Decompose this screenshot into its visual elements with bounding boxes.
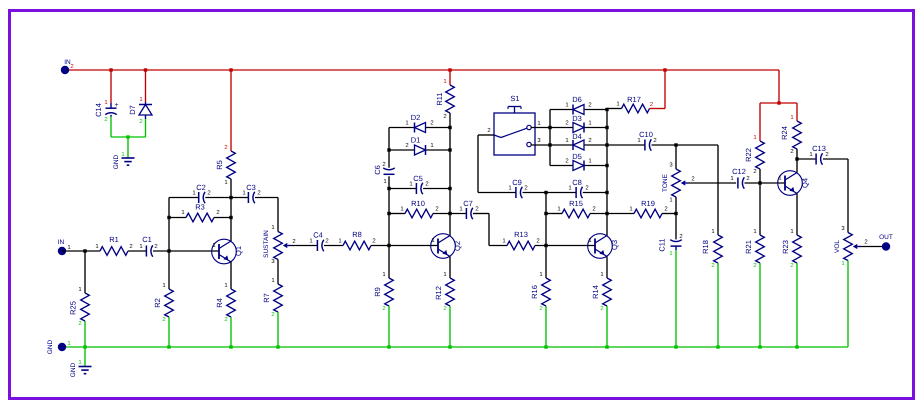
svg-text:C4: C4 xyxy=(313,231,323,240)
svg-text:C9: C9 xyxy=(512,178,522,187)
svg-text:2: 2 xyxy=(565,158,568,165)
wire D1 row xyxy=(389,149,450,151)
svg-text:R3: R3 xyxy=(195,203,205,212)
capacitor C3 xyxy=(231,183,278,203)
ground rail xyxy=(62,345,848,348)
svg-text:2: 2 xyxy=(588,137,591,144)
svg-text:1: 1 xyxy=(753,134,756,141)
svg-text:2: 2 xyxy=(565,120,568,127)
svg-text:GND: GND xyxy=(113,154,120,169)
wire SUSTAIN wiper to C4 xyxy=(291,245,318,247)
resistor R4 xyxy=(215,282,235,323)
svg-text:R25: R25 xyxy=(69,301,78,315)
transistor Q1 xyxy=(212,239,243,264)
svg-text:2: 2 xyxy=(746,175,749,182)
wire C1 to Q1 base xyxy=(153,249,219,252)
wire C7 to R13 xyxy=(489,214,507,246)
wire R18 to ground xyxy=(717,263,719,347)
svg-text:1: 1 xyxy=(383,178,386,185)
svg-text:2: 2 xyxy=(536,238,539,245)
svg-text:2: 2 xyxy=(664,206,667,213)
wire R7 to ground xyxy=(277,312,279,347)
capacitor C10 xyxy=(607,130,657,151)
svg-text:S1: S1 xyxy=(510,94,519,103)
resistor R15 xyxy=(546,199,607,218)
diode D7 xyxy=(128,96,152,125)
svg-text:2: 2 xyxy=(691,176,694,183)
svg-text:2: 2 xyxy=(443,305,446,312)
wire C10 to corner xyxy=(652,143,719,146)
svg-text:2: 2 xyxy=(864,239,867,246)
svg-text:2: 2 xyxy=(650,101,653,108)
svg-text:1: 1 xyxy=(271,224,274,231)
wire R1-C1 xyxy=(128,250,146,252)
resistor R17 xyxy=(616,95,653,113)
svg-text:2: 2 xyxy=(600,305,603,312)
svg-text:2: 2 xyxy=(653,137,656,144)
svg-text:1: 1 xyxy=(557,206,560,213)
resistor R21 xyxy=(744,183,764,269)
resistor R2 xyxy=(153,251,173,323)
capacitor C5 xyxy=(409,174,428,194)
svg-text:Q1: Q1 xyxy=(234,246,243,256)
wire D5 row xyxy=(550,165,607,167)
svg-text:1: 1 xyxy=(753,228,756,235)
svg-text:1: 1 xyxy=(382,271,385,278)
wire Q3 collector column xyxy=(605,108,608,236)
resistor R1 xyxy=(95,235,132,255)
svg-text:2: 2 xyxy=(78,320,81,327)
svg-text:1: 1 xyxy=(565,102,568,109)
wire to ground symbol xyxy=(84,347,86,367)
wire Q1 collector column xyxy=(229,196,232,242)
svg-text:1: 1 xyxy=(409,181,412,188)
svg-text:R16: R16 xyxy=(530,285,539,299)
wire R17 to power xyxy=(650,108,657,110)
resistor R23 xyxy=(781,228,801,269)
capacitor C14 xyxy=(94,99,119,123)
wire TONE top xyxy=(675,145,677,169)
svg-text:1: 1 xyxy=(309,238,312,245)
svg-text:1: 1 xyxy=(568,185,571,192)
resistor R5 xyxy=(215,144,235,198)
svg-text:R9: R9 xyxy=(373,287,382,297)
wire R2 to ground xyxy=(168,317,170,347)
potentiometer SUSTAIN xyxy=(263,224,296,265)
node IN (signal input) xyxy=(58,239,71,255)
svg-text:D5: D5 xyxy=(572,152,582,161)
wire D6 row xyxy=(550,109,607,111)
svg-text:1: 1 xyxy=(790,114,793,121)
wire S1 pin1 to D3 row xyxy=(531,127,550,129)
svg-text:1: 1 xyxy=(443,271,446,278)
svg-text:2: 2 xyxy=(207,190,210,197)
diode D2 xyxy=(405,113,433,133)
resistor R7 xyxy=(262,277,282,318)
svg-text:2: 2 xyxy=(70,63,73,70)
svg-text:SUSTAIN: SUSTAIN xyxy=(263,230,270,258)
svg-text:1: 1 xyxy=(588,120,591,127)
wire C12 to Q4 base xyxy=(745,181,786,184)
svg-text:D4: D4 xyxy=(572,132,582,141)
svg-text:1: 1 xyxy=(588,237,591,244)
wire D3 row xyxy=(550,127,607,129)
diode D5 xyxy=(565,152,591,171)
wire R9 to ground xyxy=(388,306,390,347)
svg-text:1: 1 xyxy=(405,120,408,127)
svg-text:GND: GND xyxy=(47,339,54,354)
wire input row xyxy=(62,249,100,252)
potentiometer VOL xyxy=(834,225,868,267)
svg-text:C3: C3 xyxy=(246,183,256,192)
resistor R18 xyxy=(701,228,722,269)
resistor R13 xyxy=(502,230,539,250)
wire ground join xyxy=(111,135,146,158)
svg-text:2: 2 xyxy=(216,209,219,216)
svg-text:2: 2 xyxy=(790,148,793,155)
svg-text:2: 2 xyxy=(679,233,682,240)
svg-text:VOL: VOL xyxy=(834,240,841,253)
svg-text:1: 1 xyxy=(600,271,603,278)
capacitor C1 xyxy=(139,235,157,257)
svg-text:2: 2 xyxy=(711,262,714,269)
svg-text:1: 1 xyxy=(711,228,714,235)
wire diode left column xyxy=(548,110,551,166)
svg-text:2: 2 xyxy=(825,151,828,158)
resistor R19 xyxy=(607,199,676,218)
svg-text:Q2: Q2 xyxy=(453,241,462,251)
svg-text:3: 3 xyxy=(537,137,541,144)
svg-text:R11: R11 xyxy=(435,92,444,105)
resistor R10 xyxy=(400,199,438,218)
svg-text:1: 1 xyxy=(841,260,844,267)
node GND xyxy=(47,339,71,354)
resistor R12 xyxy=(434,271,454,312)
resistor R9 xyxy=(373,246,393,313)
node OUT xyxy=(879,234,893,251)
svg-text:1: 1 xyxy=(790,228,793,235)
svg-text:2: 2 xyxy=(154,243,157,250)
svg-text:2: 2 xyxy=(592,206,595,213)
ground (rail) xyxy=(70,359,92,377)
svg-text:R22: R22 xyxy=(744,148,753,162)
wire R21 to ground xyxy=(759,263,761,347)
wire power drop to R5 xyxy=(229,68,232,151)
svg-text:1: 1 xyxy=(121,151,124,158)
svg-text:2: 2 xyxy=(162,316,165,323)
svg-text:2: 2 xyxy=(753,262,756,269)
svg-text:1: 1 xyxy=(192,190,195,197)
svg-text:1: 1 xyxy=(95,243,98,250)
svg-text:1: 1 xyxy=(778,175,781,182)
svg-text:2: 2 xyxy=(425,181,428,188)
svg-text:2: 2 xyxy=(224,316,227,323)
svg-text:R14: R14 xyxy=(591,285,600,299)
svg-text:R19: R19 xyxy=(641,199,655,208)
svg-text:R12: R12 xyxy=(434,286,443,300)
svg-text:C7: C7 xyxy=(463,199,473,208)
svg-text:D1: D1 xyxy=(411,136,421,145)
wire Q3 base column xyxy=(544,193,547,246)
svg-text:2: 2 xyxy=(487,127,490,134)
diode D4 xyxy=(565,132,591,150)
svg-text:2: 2 xyxy=(524,185,527,192)
svg-text:1: 1 xyxy=(224,179,227,186)
wire C4-R8 xyxy=(324,245,343,247)
svg-text:2: 2 xyxy=(430,120,433,127)
capacitor C8 xyxy=(546,178,607,198)
svg-text:R4: R4 xyxy=(215,298,224,308)
svg-text:1: 1 xyxy=(212,242,215,249)
wire Q2 collector column xyxy=(448,113,451,236)
svg-text:1: 1 xyxy=(338,238,341,245)
svg-text:1: 1 xyxy=(502,238,505,245)
svg-text:1: 1 xyxy=(431,237,434,244)
svg-text:TONE: TONE xyxy=(662,173,669,192)
resistor R8 xyxy=(338,230,375,250)
wire TONE wiper to C12 xyxy=(689,182,737,184)
wire C3 to SUSTAIN xyxy=(277,198,279,232)
transistor Q2 xyxy=(431,234,462,259)
svg-text:3: 3 xyxy=(841,225,845,232)
svg-text:1: 1 xyxy=(78,286,81,293)
wire D7 to ground xyxy=(145,119,147,137)
svg-text:1: 1 xyxy=(629,206,632,213)
svg-text:1: 1 xyxy=(78,359,81,366)
svg-text:2: 2 xyxy=(443,113,446,120)
svg-text:2: 2 xyxy=(405,142,408,149)
resistor R16 xyxy=(530,246,550,313)
wire power drop to R22/R24 xyxy=(760,70,797,141)
svg-text:R5: R5 xyxy=(215,160,224,170)
svg-text:2: 2 xyxy=(435,206,438,213)
svg-text:2: 2 xyxy=(325,238,328,245)
wire S1 common xyxy=(478,135,516,193)
svg-text:1: 1 xyxy=(616,101,619,108)
wire C7 row xyxy=(450,213,489,215)
svg-text:R17: R17 xyxy=(627,95,641,104)
svg-text:C1: C1 xyxy=(142,235,152,244)
wire R8 to Q2 base xyxy=(371,244,438,247)
svg-text:R24: R24 xyxy=(780,126,789,140)
svg-text:2: 2 xyxy=(753,168,756,175)
svg-text:D2: D2 xyxy=(411,113,421,122)
svg-text:1: 1 xyxy=(637,137,640,144)
resistor R22 xyxy=(744,134,764,183)
wire Q4 collector xyxy=(795,157,798,172)
wire D4 row xyxy=(550,144,607,146)
svg-text:OUT: OUT xyxy=(879,234,893,241)
svg-text:1: 1 xyxy=(565,137,568,144)
svg-text:C2: C2 xyxy=(196,183,206,192)
wire C10 node to R18 xyxy=(717,145,719,235)
svg-text:1: 1 xyxy=(443,78,446,85)
svg-text:R13: R13 xyxy=(514,230,528,239)
svg-text:1: 1 xyxy=(67,340,70,347)
svg-text:R8: R8 xyxy=(352,230,362,239)
wire C13 to VOL xyxy=(823,159,848,233)
wire R13 to Q3 base xyxy=(535,244,595,247)
wire R10 row xyxy=(389,213,450,215)
svg-text:R10: R10 xyxy=(411,199,425,208)
wire R16 to ground xyxy=(545,306,547,347)
wire Q3 emitter xyxy=(606,257,608,279)
svg-text:C10: C10 xyxy=(639,130,653,139)
svg-text:1: 1 xyxy=(271,277,274,284)
wire C6 up to diodes xyxy=(387,128,390,168)
resistor R11 xyxy=(435,78,454,120)
svg-text:R7: R7 xyxy=(262,293,271,303)
svg-text:C12: C12 xyxy=(732,167,746,176)
svg-text:R1: R1 xyxy=(109,235,119,244)
svg-text:1: 1 xyxy=(539,271,542,278)
svg-text:2: 2 xyxy=(257,190,260,197)
svg-text:D6: D6 xyxy=(572,95,582,104)
wire TONE bottom xyxy=(674,197,677,215)
svg-text:R2: R2 xyxy=(153,298,162,308)
svg-text:1: 1 xyxy=(242,190,245,197)
wire D6 row to R17 xyxy=(607,108,622,110)
wire power drop to R17 xyxy=(656,68,667,108)
svg-text:2: 2 xyxy=(139,118,142,125)
diode D6 xyxy=(565,95,591,115)
wire VOL to ground xyxy=(847,261,849,348)
svg-text:1: 1 xyxy=(730,175,733,182)
wire S1 pin3 to D4 row xyxy=(531,144,550,146)
svg-text:C14: C14 xyxy=(94,103,103,117)
svg-text:1: 1 xyxy=(139,243,142,250)
svg-text:IN: IN xyxy=(58,239,65,246)
svg-text:Q4: Q4 xyxy=(801,178,810,188)
resistor R14 xyxy=(591,271,611,312)
svg-text:R23: R23 xyxy=(781,240,790,254)
wire power drop to D7 xyxy=(144,68,147,102)
diode D3 xyxy=(565,114,591,133)
capacitor C9 xyxy=(508,178,527,198)
capacitor C11 xyxy=(658,214,683,258)
svg-text:2: 2 xyxy=(382,161,385,168)
svg-text:1: 1 xyxy=(162,282,165,289)
wire R4 to ground xyxy=(230,317,232,347)
svg-text:2: 2 xyxy=(292,238,295,245)
node IN (power input) xyxy=(61,59,74,74)
wire Q1 emitter xyxy=(230,262,232,290)
wire Q4 emitter xyxy=(796,194,798,236)
svg-text:2: 2 xyxy=(382,305,385,312)
svg-text:1: 1 xyxy=(139,96,142,103)
svg-text:1: 1 xyxy=(508,185,511,192)
svg-text:3: 3 xyxy=(669,162,673,169)
wire D2 row xyxy=(389,127,450,129)
wire Q2 emitter xyxy=(449,257,451,279)
wire C11 to ground xyxy=(675,250,677,347)
wire R12 to ground xyxy=(449,306,451,347)
svg-text:+: + xyxy=(114,102,118,109)
svg-text:2: 2 xyxy=(372,238,375,245)
resistor R3 xyxy=(169,203,231,222)
svg-text:C13: C13 xyxy=(812,144,826,153)
svg-text:1: 1 xyxy=(809,151,812,158)
svg-text:1: 1 xyxy=(669,197,672,204)
transistor Q3 xyxy=(588,234,619,259)
svg-text:1: 1 xyxy=(224,282,227,289)
wire R25 to ground xyxy=(84,321,86,347)
svg-text:2: 2 xyxy=(271,311,274,318)
wire Q2 base column up xyxy=(387,176,390,245)
svg-text:R18: R18 xyxy=(701,240,710,254)
wire C5 row xyxy=(389,188,450,190)
resistor R24 xyxy=(780,114,801,159)
svg-text:2: 2 xyxy=(104,116,107,123)
capacitor C4 xyxy=(309,231,328,252)
svg-text:2: 2 xyxy=(585,185,588,192)
svg-text:R15: R15 xyxy=(569,199,583,208)
wire VOL wiper to OUT xyxy=(861,246,883,248)
wire power drop to C14 xyxy=(109,68,112,103)
svg-text:1: 1 xyxy=(669,250,672,257)
capacitor C7 xyxy=(459,199,478,219)
capacitor C13 xyxy=(797,144,829,165)
wire Q1 base column up xyxy=(167,198,170,252)
svg-text:1: 1 xyxy=(104,99,107,106)
svg-text:2: 2 xyxy=(224,144,227,151)
capacitor C12 xyxy=(730,167,749,189)
svg-text:1: 1 xyxy=(588,158,591,165)
svg-text:1: 1 xyxy=(537,120,540,127)
transistor Q4 xyxy=(778,171,810,196)
power rail +V xyxy=(65,69,779,71)
switch S1 xyxy=(487,94,541,155)
svg-text:C11: C11 xyxy=(658,238,667,251)
wire R23 to ground xyxy=(796,263,798,347)
svg-text:GND: GND xyxy=(70,362,77,377)
potentiometer TONE xyxy=(662,162,695,204)
svg-text:R21: R21 xyxy=(744,240,753,254)
resistor R25 xyxy=(69,251,90,327)
capacitor C6 xyxy=(373,161,395,185)
svg-text:1: 1 xyxy=(400,206,403,213)
capacitor C2 xyxy=(169,183,231,203)
svg-text:1: 1 xyxy=(181,209,184,216)
svg-text:Q3: Q3 xyxy=(610,240,619,250)
svg-text:2: 2 xyxy=(790,262,793,269)
wire C9 to node xyxy=(523,191,548,194)
svg-text:C5: C5 xyxy=(413,174,423,183)
svg-text:3: 3 xyxy=(271,258,275,265)
wire C14 to ground xyxy=(110,117,112,138)
ground (input filter) xyxy=(113,151,135,169)
svg-text:D3: D3 xyxy=(572,114,582,123)
svg-text:2: 2 xyxy=(129,243,132,250)
diode D1 xyxy=(405,136,433,156)
wire power drop to R11 xyxy=(448,68,451,85)
svg-text:1: 1 xyxy=(430,142,433,149)
svg-text:2: 2 xyxy=(475,206,478,213)
svg-text:D7: D7 xyxy=(128,105,137,115)
wire SUSTAIN to R7 xyxy=(277,260,279,285)
wire R14 to ground xyxy=(606,306,608,347)
svg-text:C6: C6 xyxy=(373,165,382,175)
svg-text:2: 2 xyxy=(539,305,542,312)
svg-text:C8: C8 xyxy=(572,178,582,187)
svg-text:2: 2 xyxy=(588,102,591,109)
svg-text:1: 1 xyxy=(67,244,70,251)
svg-text:1: 1 xyxy=(459,206,462,213)
